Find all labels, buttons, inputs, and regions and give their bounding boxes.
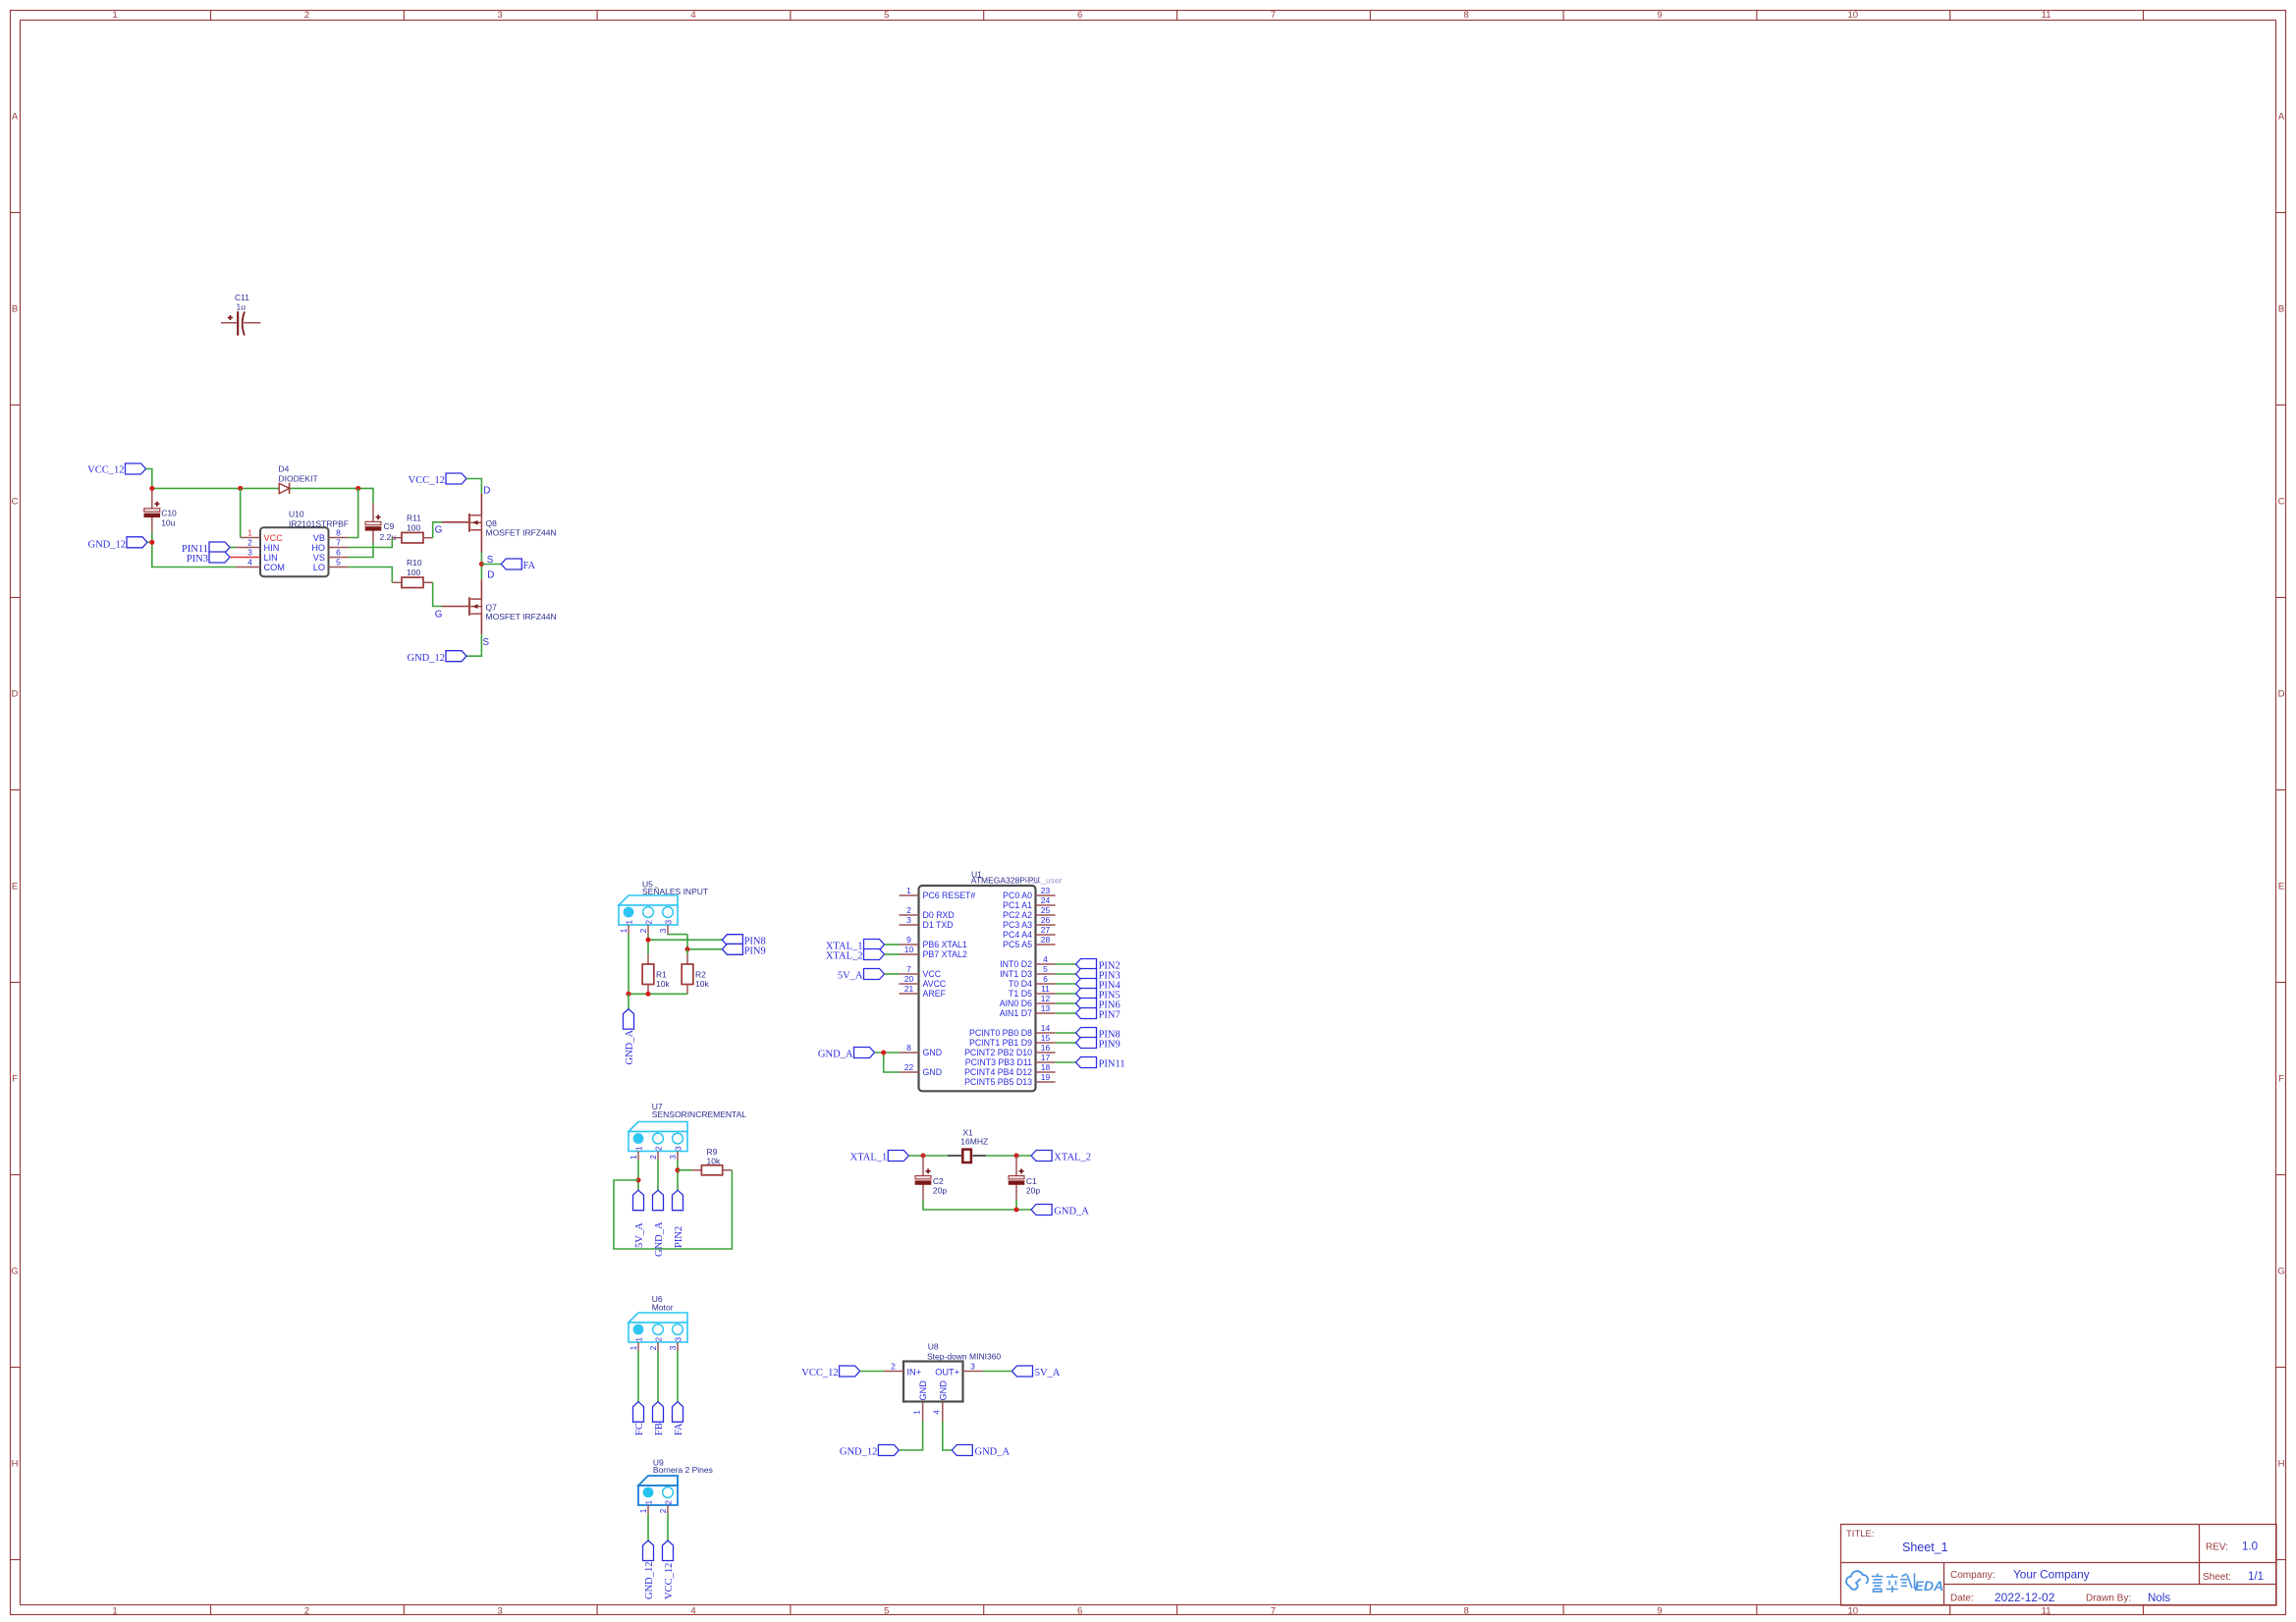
port PIN2 (U1) [1076, 959, 1121, 972]
wire U5.2 to PIN8/R1 [647, 935, 649, 955]
wire GND_A to GND pins [875, 1052, 900, 1054]
wire pull-up loop [614, 1170, 732, 1249]
svg-text:PCINT5 PB5 D13: PCINT5 PB5 D13 [964, 1077, 1032, 1087]
port PIN9 (U1) [1076, 1038, 1121, 1051]
svg-text:16MHZ: 16MHZ [960, 1137, 988, 1147]
svg-text:3: 3 [675, 1337, 683, 1342]
svg-text:11: 11 [2042, 10, 2051, 21]
svg-text:GND_12: GND_12 [840, 1446, 878, 1457]
wire R11 to Q8 gate [433, 522, 442, 538]
U10 pin 4 COM [236, 558, 285, 572]
U1 pin 3 D1 TXD [900, 915, 954, 930]
wire U5.1 to GND rail [628, 935, 629, 995]
svg-text:D: D [12, 688, 19, 699]
svg-text:23: 23 [1041, 886, 1051, 895]
svg-text:VB: VB [313, 533, 325, 543]
svg-text:TITLE:: TITLE: [1846, 1529, 1875, 1540]
wire U1 to port PIN6 [1056, 1002, 1076, 1004]
wire FA node to port [481, 564, 501, 566]
svg-text:REV:: REV: [2206, 1542, 2228, 1553]
svg-text:R2: R2 [695, 969, 706, 979]
svg-text:2: 2 [247, 538, 252, 548]
U1 pin 4 INT0 D2 [1000, 954, 1055, 969]
svg-text:4: 4 [690, 1605, 695, 1616]
svg-text:AIN0 D6: AIN0 D6 [1000, 999, 1032, 1008]
svg-text:9: 9 [906, 935, 911, 945]
svg-text:5: 5 [884, 10, 889, 21]
U8 pin 2 IN+ [884, 1362, 921, 1378]
svg-text:U8: U8 [928, 1342, 939, 1352]
connector U5 SENALES INPUT [619, 880, 708, 934]
crystal X1 16MHZ [948, 1127, 988, 1162]
port PIN3 (U1) [1076, 969, 1121, 982]
svg-text:3: 3 [675, 1146, 683, 1151]
svg-text:16: 16 [1041, 1043, 1051, 1053]
svg-text:GND: GND [923, 1048, 943, 1057]
junction gnd rail / C1 [1013, 1207, 1018, 1212]
wire VB to rail [349, 488, 358, 537]
svg-text:G: G [2277, 1266, 2284, 1276]
resistor R2 10k [682, 949, 709, 995]
U1 pin 12 AIN0 D6 [1000, 994, 1056, 1008]
port PIN9 (U5) [722, 944, 765, 956]
svg-text:VCC: VCC [923, 969, 942, 979]
svg-text:PIN3: PIN3 [187, 554, 208, 565]
resistor R1 10k [642, 954, 670, 994]
svg-text:1u: 1u [237, 302, 246, 312]
wire U1 to port PIN7 [1056, 1012, 1076, 1014]
svg-text:5V_A: 5V_A [1035, 1368, 1061, 1379]
svg-text:AREF: AREF [923, 989, 947, 999]
U1 pin 2 D0 RXD [900, 905, 955, 920]
wire C9 to VS [349, 543, 373, 558]
port PIN5 (U1) [1076, 989, 1121, 1001]
svg-text:1: 1 [906, 886, 911, 895]
connector U6 Motor [629, 1294, 687, 1350]
svg-text:2: 2 [665, 1500, 674, 1505]
diode D4 DIODEKIT [279, 464, 318, 494]
wire LO to R10 [349, 568, 393, 583]
U5 pin 3 [667, 925, 669, 935]
svg-text:8: 8 [906, 1043, 911, 1053]
svg-text:11: 11 [1041, 984, 1050, 994]
wire crystal to XTAL_2 [986, 1155, 1031, 1157]
U1 pin 20 AVCC [900, 974, 947, 989]
svg-text:AVCC: AVCC [923, 979, 947, 989]
svg-text:2: 2 [304, 10, 309, 21]
wire HO to R11 [349, 538, 393, 548]
junction U7.1 / loop [635, 1177, 640, 1182]
svg-text:17: 17 [1041, 1053, 1051, 1062]
svg-text:3: 3 [247, 548, 252, 558]
port PIN2 (U7) [673, 1190, 684, 1248]
wire gnd rail (crystal) [923, 1200, 1031, 1210]
U1 pin 16 PCINT2 PB2 D10 [964, 1043, 1056, 1057]
svg-text:8: 8 [1464, 10, 1469, 21]
svg-text:GND_A: GND_A [625, 1030, 635, 1065]
U9 pin 2 [667, 1505, 669, 1514]
port PIN11 [182, 542, 230, 555]
svg-text:2: 2 [891, 1362, 896, 1372]
wire U1 to port PIN5 [1056, 993, 1076, 995]
junction U5.2/PIN8 [645, 938, 650, 943]
svg-text:1: 1 [247, 528, 252, 538]
svg-text:5V_A: 5V_A [634, 1222, 645, 1248]
U1 pin 25 PC2 A2 [1003, 905, 1055, 920]
svg-text:MOSFET IRFZ44N: MOSFET IRFZ44N [486, 612, 557, 622]
svg-text:PIN9: PIN9 [744, 946, 766, 956]
svg-text:14: 14 [1041, 1023, 1051, 1033]
svg-text:Date:: Date: [1950, 1594, 1974, 1604]
svg-text:1: 1 [639, 1508, 648, 1513]
capacitor C2 20p [915, 1156, 947, 1200]
svg-text:G: G [11, 1266, 18, 1276]
wire U5.3 elbow down [686, 935, 688, 949]
svg-text:INT0 D2: INT0 D2 [1000, 959, 1032, 969]
U1 pin 24 PC1 A1 [1003, 895, 1055, 910]
port 5V_A (U1) [838, 969, 885, 982]
svg-text:6: 6 [1043, 974, 1048, 984]
svg-text:7: 7 [1271, 1605, 1276, 1616]
svg-text:8: 8 [1464, 1605, 1469, 1616]
svg-text:1: 1 [629, 1155, 638, 1160]
svg-text:R10: R10 [407, 558, 422, 568]
svg-text:D4: D4 [279, 464, 290, 474]
svg-text:26: 26 [1041, 915, 1051, 925]
svg-text:G: G [435, 525, 443, 536]
wire U10 pin1 VCC from rail [240, 488, 242, 537]
svg-text:21: 21 [904, 984, 914, 994]
U1 pin 27 PC4 A4 [1003, 925, 1055, 940]
svg-text:3: 3 [498, 1605, 503, 1616]
svg-text:C2: C2 [933, 1176, 944, 1186]
resistor R9 10k [692, 1147, 733, 1175]
svg-text:HO: HO [311, 543, 325, 553]
wire PIN8 row [648, 939, 722, 941]
junction top rail at U10 VCC [238, 486, 243, 491]
svg-text:1: 1 [629, 1345, 638, 1350]
svg-text:GND_12: GND_12 [644, 1562, 655, 1600]
svg-text:10k: 10k [707, 1156, 721, 1165]
wire U9.1 to GND_12 [647, 1514, 649, 1541]
U10 pin 5 LO [313, 558, 349, 572]
svg-text:3: 3 [906, 915, 911, 925]
port PIN4 (U1) [1076, 979, 1121, 992]
resistor R10 100 [392, 558, 432, 587]
svg-text:1: 1 [645, 1500, 654, 1505]
svg-text:7: 7 [1271, 10, 1276, 21]
port 5V_A (U8) [1012, 1366, 1061, 1379]
junction GND_12 / C10 [149, 540, 154, 545]
port FC [633, 1402, 645, 1435]
svg-text:F: F [12, 1073, 18, 1084]
U1 pin 15 PCINT1 PB1 D9 [969, 1033, 1056, 1048]
svg-text:D: D [487, 570, 494, 581]
svg-text:GND_A: GND_A [1054, 1206, 1089, 1216]
svg-text:28: 28 [1041, 935, 1051, 945]
svg-text:3: 3 [665, 920, 674, 925]
svg-text:GND_A: GND_A [654, 1221, 665, 1257]
svg-text:E: E [2278, 881, 2284, 892]
junction FA node [479, 562, 484, 567]
svg-text:PB6 XTAL1: PB6 XTAL1 [923, 940, 967, 949]
U10 pin 8 VB [313, 528, 349, 543]
svg-text:GND: GND [923, 1067, 943, 1077]
connector U9 Bornera 2 Pines [638, 1457, 713, 1513]
JLC EDA logo [1846, 1571, 1868, 1590]
svg-text:VS: VS [313, 553, 325, 563]
capacitor C11 1u [221, 293, 260, 336]
svg-text:R1: R1 [656, 969, 667, 979]
svg-text:1: 1 [112, 1605, 117, 1616]
svg-text:2: 2 [906, 905, 911, 915]
svg-text:PC4 A4: PC4 A4 [1003, 930, 1032, 940]
svg-text:25: 25 [1041, 905, 1051, 915]
svg-text:F: F [2278, 1073, 2284, 1084]
svg-text:C: C [2278, 496, 2285, 507]
svg-text:GND_12: GND_12 [408, 653, 446, 664]
wire Q8 source to FA node [480, 553, 482, 579]
svg-text:2: 2 [655, 1337, 664, 1342]
svg-text:10: 10 [1848, 10, 1859, 21]
wire top rail [152, 487, 279, 489]
svg-text:6: 6 [336, 548, 341, 558]
wire OUT+ to 5V_A [983, 1371, 1012, 1373]
wire U8 GND1 to GND_12 [900, 1422, 923, 1450]
wire VCC_12 to Q8 drain [466, 479, 481, 494]
U1 pin 22 GND [900, 1062, 943, 1077]
U7 pin 2 [657, 1152, 659, 1161]
svg-text:2022-12-02: 2022-12-02 [1995, 1591, 2055, 1604]
wire U9.2 to VCC_12 [667, 1514, 669, 1541]
port PIN8 (U5) [722, 935, 765, 947]
U1 pin 14 PCINT0 PB0 D8 [969, 1023, 1056, 1038]
svg-text:18: 18 [1041, 1062, 1051, 1072]
wire U7.2 to GND_A [657, 1160, 659, 1190]
port XTAL_1 (crystal) [850, 1151, 909, 1163]
svg-text:VCC: VCC [264, 533, 284, 543]
svg-text:Bornera 2 Pines: Bornera 2 Pines [653, 1465, 713, 1475]
svg-text:10k: 10k [656, 979, 670, 989]
svg-text:LIN: LIN [264, 553, 278, 563]
svg-text:3: 3 [669, 1345, 678, 1350]
svg-text:3: 3 [669, 1155, 678, 1160]
svg-text:4: 4 [1043, 954, 1048, 964]
svg-text:9: 9 [1657, 10, 1662, 21]
svg-text:1.0: 1.0 [2242, 1541, 2258, 1553]
svg-text:8: 8 [336, 528, 341, 538]
svg-text:A: A [12, 111, 19, 122]
svg-text:GND_A: GND_A [818, 1050, 853, 1060]
U6 pin 3 [677, 1342, 679, 1351]
U1 pin 21 AREF [900, 984, 947, 999]
svg-text:EDA: EDA [1915, 1578, 1944, 1594]
svg-text:PIN7: PIN7 [1099, 1009, 1121, 1020]
svg-text:1: 1 [626, 920, 634, 925]
wire XTAL_1 to crystal [909, 1155, 948, 1157]
svg-text:27: 27 [1041, 925, 1051, 935]
svg-text:H: H [12, 1458, 19, 1469]
U10 pin 6 VS [313, 548, 349, 563]
wire PIN3 to LIN (red) [231, 557, 237, 559]
svg-text:12: 12 [1041, 994, 1051, 1003]
svg-text:PCINT1 PB1 D9: PCINT1 PB1 D9 [969, 1038, 1032, 1048]
svg-text:2: 2 [649, 1345, 658, 1350]
port PIN11 (U1) [1076, 1057, 1125, 1070]
svg-text:AIN1 D7: AIN1 D7 [1000, 1008, 1032, 1018]
transistor Q8 MOSFET IRFZ44N [442, 494, 557, 553]
svg-text:XTAL_1: XTAL_1 [850, 1152, 888, 1162]
port GND_A (U8) [952, 1445, 1010, 1458]
wire VCC_12 to IN+ [860, 1371, 884, 1373]
svg-text:1: 1 [912, 1410, 922, 1415]
svg-text:Drawn By:: Drawn By: [2086, 1594, 2131, 1604]
svg-text:U10: U10 [289, 510, 304, 519]
svg-text:20: 20 [904, 974, 914, 984]
svg-text:4: 4 [690, 10, 695, 21]
svg-text:T1 D5: T1 D5 [1009, 989, 1032, 999]
port VCC_12 (top left) [87, 463, 145, 475]
U1 pin 9 PB6 XTAL1 [900, 935, 967, 949]
wire R9 left [678, 1169, 692, 1171]
svg-text:XTAL_2: XTAL_2 [1054, 1152, 1091, 1162]
U8 pin 3 OUT+ [935, 1362, 982, 1378]
port GND_12 (bottom) [408, 651, 467, 664]
U1 pin 26 PC3 A3 [1003, 915, 1055, 930]
svg-text:2.2u: 2.2u [380, 532, 397, 542]
connector U7 SENSORINCREMENTAL [629, 1102, 746, 1160]
port GND_12 (U9) [643, 1541, 655, 1599]
svg-text:H: H [2278, 1458, 2285, 1469]
svg-text:COM: COM [264, 563, 285, 572]
svg-text:E: E [12, 881, 18, 892]
wire U7.1 to 5V_A [637, 1160, 639, 1190]
U7 pin 3 [677, 1152, 679, 1161]
U10 pin 1 VCC [241, 528, 284, 543]
svg-text:D1 TXD: D1 TXD [923, 920, 954, 930]
port PIN8 (U1) [1076, 1028, 1121, 1041]
U9 pin 1 [647, 1505, 649, 1514]
wire VCC_12 to top rail [146, 469, 152, 489]
svg-text:G: G [435, 609, 443, 620]
svg-text:5: 5 [884, 1605, 889, 1616]
svg-text:B: B [2278, 303, 2284, 314]
title block [1841, 1525, 2277, 1606]
svg-text:GND: GND [918, 1380, 928, 1401]
junction XTAL_1/C2 [920, 1153, 925, 1158]
svg-text:19: 19 [1041, 1072, 1051, 1082]
svg-text:PC5 A5: PC5 A5 [1003, 940, 1032, 949]
svg-text:10: 10 [1848, 1605, 1859, 1616]
U5 pin 2 [647, 925, 649, 935]
port GND_A (crystal) [1031, 1205, 1089, 1217]
wire U1 to port PIN9 [1056, 1042, 1076, 1044]
port XTAL_1 (U1) [826, 940, 885, 952]
junction rail/U5.1 [626, 992, 630, 997]
port VCC_12 (U9) [663, 1541, 675, 1599]
port 5V_A (U7) [633, 1190, 645, 1248]
svg-text:HIN: HIN [264, 543, 280, 553]
svg-text:22: 22 [904, 1062, 914, 1072]
wire XTAL_2 to PB7 [885, 953, 900, 955]
svg-text:VCC_12: VCC_12 [409, 475, 445, 486]
capacitor C9 2.2u [365, 503, 396, 542]
wire PIN11 to HIN [231, 547, 237, 549]
wire U1 to port PIN11 [1056, 1061, 1076, 1063]
port GND_A (U7) [653, 1190, 665, 1257]
svg-text:3: 3 [970, 1362, 975, 1372]
svg-text:A: A [2278, 111, 2285, 122]
U1 pin 28 PC5 A5 [1003, 935, 1055, 949]
IC U10 IR2101STRPBF [260, 510, 349, 577]
junction GND_A [881, 1050, 886, 1054]
svg-text:3: 3 [659, 928, 668, 933]
svg-text:2: 2 [659, 1508, 668, 1513]
svg-text:Nols: Nols [2148, 1593, 2170, 1604]
svg-text:1: 1 [112, 10, 117, 21]
svg-text:1: 1 [620, 928, 629, 933]
resistor R11 100 [392, 514, 432, 543]
svg-text:2: 2 [649, 1155, 658, 1160]
svg-text:PCINT3 PB3 D11: PCINT3 PB3 D11 [965, 1057, 1032, 1067]
U6 pin 2 [657, 1342, 659, 1351]
svg-text:11: 11 [2042, 1605, 2051, 1616]
svg-text:INT1 D3: INT1 D3 [1000, 969, 1032, 979]
svg-text:10k: 10k [695, 979, 709, 989]
svg-text:FA: FA [523, 561, 536, 571]
U1 pin 17 PCINT3 PB3 D11 [965, 1053, 1056, 1067]
port VCC_12 (top right) [409, 473, 466, 486]
capacitor C1 20p [1009, 1156, 1040, 1200]
wire U1 to port PIN2 [1056, 963, 1076, 965]
wire U7.3 to PIN2 [677, 1160, 679, 1190]
svg-text:PC0 A0: PC0 A0 [1003, 891, 1032, 900]
wire R10 to Q7 gate [433, 582, 442, 606]
transistor Q7 MOSFET IRFZ44N [442, 579, 557, 635]
port GND_A (U1) [818, 1048, 875, 1060]
svg-text:C: C [12, 496, 19, 507]
svg-text:PB7 XTAL2: PB7 XTAL2 [923, 949, 967, 959]
svg-text:C10: C10 [161, 509, 177, 518]
IC U8 Step-down MINI360 [903, 1342, 1001, 1402]
port XTAL_2 (U1) [826, 949, 885, 962]
capacitor C10 10u [144, 491, 177, 543]
U1 pin 13 AIN1 D7 [1000, 1003, 1056, 1018]
svg-text:9: 9 [1657, 1605, 1662, 1616]
svg-text:24: 24 [1041, 895, 1051, 905]
svg-text:100: 100 [407, 568, 420, 577]
svg-text:S: S [483, 637, 490, 648]
port VCC_12 (U8) [801, 1366, 859, 1379]
port PIN3 [187, 552, 230, 565]
svg-text:Motor: Motor [652, 1303, 674, 1313]
wire 5V_A to VCC [885, 973, 900, 975]
svg-text:Step-down MINI360: Step-down MINI360 [927, 1351, 1001, 1361]
U8 pin 1 GND [912, 1380, 929, 1422]
wire U5 GND_A drop [628, 994, 629, 1008]
svg-text:10u: 10u [161, 517, 175, 527]
U1 pin 18 PCINT4 PB4 D12 [964, 1062, 1056, 1077]
svg-text:FB: FB [654, 1423, 665, 1435]
svg-text:PIN9: PIN9 [1099, 1039, 1121, 1050]
U1 pin 23 PC0 A0 [1003, 886, 1055, 900]
wire U6.1 to FC [637, 1351, 639, 1402]
port FA (U6) [673, 1402, 684, 1435]
svg-text:R3K_user: R3K_user [1025, 875, 1063, 885]
wire U6.3 to FA [677, 1351, 679, 1402]
U6 pin 1 [637, 1342, 639, 1351]
svg-text:Sheet:: Sheet: [2203, 1572, 2231, 1583]
